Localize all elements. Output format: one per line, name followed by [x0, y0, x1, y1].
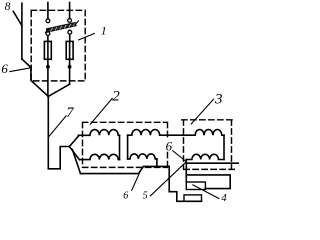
svg-text:2: 2: [112, 89, 120, 105]
wire: contact line vertical: [21, 3, 23, 59]
heater element C right side: [223, 135, 225, 159]
junction dot left: [46, 65, 50, 69]
heater element A top winding: [78, 130, 119, 136]
ground box element: [184, 195, 202, 201]
wire: left pole to fuse: [47, 36, 49, 42]
leader line to label 3: [191, 99, 213, 124]
dashed enclosure 3 (heater group): [182, 120, 236, 170]
fuse F1: [44, 41, 51, 59]
svg-text:6: 6: [123, 191, 128, 202]
funnel: feeder fan-out to heater lines: [69, 136, 78, 146]
svg-text:4: 4: [221, 193, 227, 204]
leader line to label 4: [193, 185, 219, 199]
rail wire to right edge: [186, 162, 239, 164]
resistor R4 (box element): [186, 182, 205, 190]
svg-text:6: 6: [1, 61, 8, 76]
svg-text:1: 1: [101, 24, 107, 38]
leader line to label 5: [151, 162, 187, 196]
bottom bus from funnel: [81, 166, 170, 173]
wire: left fuse through-wire and drop to node: [47, 41, 49, 96]
contact circle right top: [68, 19, 72, 23]
heater element A bottom winding: [80, 154, 120, 159]
svg-text:7: 7: [66, 105, 74, 121]
svg-text:5: 5: [143, 190, 148, 201]
contact circle left top: [46, 19, 50, 23]
fuse F2: [66, 41, 73, 59]
wire: heater C left drop: [185, 160, 187, 183]
heater element B bottom winding: [128, 154, 157, 159]
wire: left pole drop-in: [47, 3, 49, 19]
leader line to label 6 bus: [132, 167, 142, 190]
contact circle left bottom: [46, 32, 50, 36]
heater element B drop to plateau: [156, 159, 158, 167]
wire: right pole drop-in: [69, 3, 71, 19]
heater element B top winding + link wire to group 3: [128, 129, 196, 135]
svg-text:6: 6: [166, 138, 173, 153]
wire: right pole slant to node: [48, 84, 69, 96]
dashed enclosure 2 (heater group): [83, 122, 168, 167]
leader line to label 6 left: [10, 68, 31, 72]
heater element C top winding: [195, 129, 224, 135]
wire: bend toward fuse box: [22, 59, 48, 96]
wire: loop to resistor 4: [186, 175, 230, 189]
leader line to label 2: [90, 98, 112, 124]
dashed enclosure 1 (fuse-disconnector box): [31, 10, 85, 81]
wire: drop from plateau to grounding gear: [169, 166, 201, 201]
heater element C bottom winding: [186, 154, 224, 159]
switch blade (hatched knife bar): [45, 21, 78, 33]
leader line to label 6 right: [173, 151, 186, 162]
heater element A right side: [119, 135, 121, 159]
contact circle right bottom: [68, 30, 72, 34]
svg-text:3: 3: [214, 92, 223, 108]
svg-text:8: 8: [5, 1, 11, 13]
junction dot right: [68, 65, 72, 69]
leader line to label 7: [49, 116, 67, 137]
wire: right pole to fuse: [69, 34, 71, 41]
leader line to label 1: [79, 34, 95, 40]
heater element B left side: [127, 135, 129, 159]
wire: feeder slant from label 8: [13, 11, 22, 25]
wire: right fuse through-wire down: [69, 41, 71, 84]
wire 7: main feeder down: [48, 96, 69, 168]
